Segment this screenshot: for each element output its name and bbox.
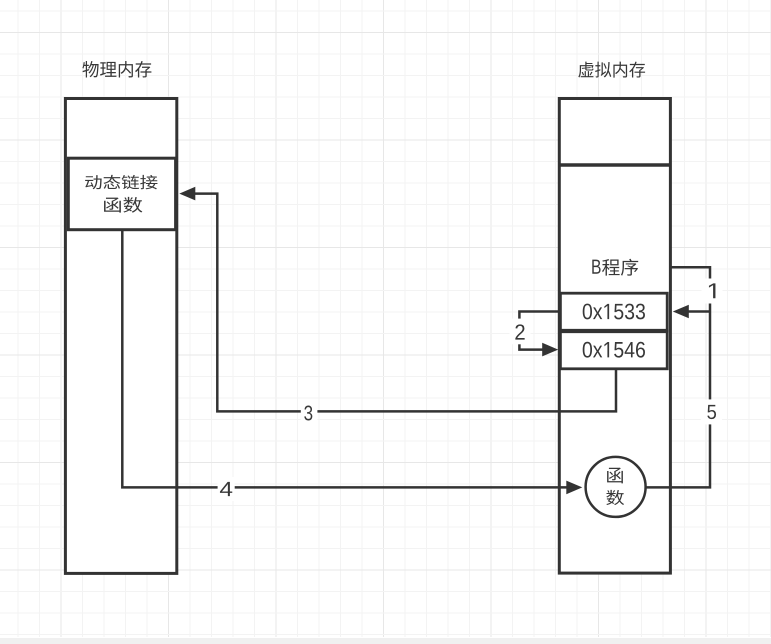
- label: B program letter B: [592, 260, 600, 274]
- label: dynamic-link line2 函数: [104, 197, 142, 213]
- wire: edge 3 from 0x1546 bottom to dynamic-link box: [192, 194, 616, 412]
- arrowhead: edge 4 into function circle: [566, 481, 582, 495]
- label: edge number 2: [515, 324, 524, 339]
- label: dynamic-link line1 动态链接: [85, 175, 157, 190]
- rectangle: cell 0x1546: [560, 331, 667, 369]
- label: edge number 3: [304, 406, 312, 421]
- label: address 0x1533: [583, 304, 645, 320]
- arrowhead: edge 1 into 0x1533: [673, 305, 689, 319]
- wire: edge 4 from dynamic-link box bottom to function circle: [122, 231, 568, 488]
- wire: edge 1 horizontal into 0x1533 right side: [685, 310, 710, 313]
- shared border between 0x1533 and 0x1546: [560, 329, 667, 333]
- label background 2: [510, 319, 531, 345]
- bottom scrollbar strip: [0, 638, 771, 644]
- wire: edge 5 from function circle right side up to junction: [646, 312, 710, 488]
- circle: function node 函数: [586, 457, 646, 517]
- label background 4: [218, 477, 235, 501]
- label: address 0x1546: [583, 342, 645, 358]
- label background 3: [301, 401, 318, 425]
- label: edge number 4: [220, 482, 232, 496]
- rectangle: physical memory column 物理内存: [65, 99, 176, 574]
- label: B program 程序: [602, 259, 638, 276]
- arrowhead: edge 3 into dynamic-link box: [179, 187, 195, 201]
- label: circle text 数: [606, 490, 624, 505]
- divider line in virtual memory column: [559, 163, 670, 167]
- wire: edge 2 from 0x1533 left side, left, down, right into 0x1546: [519, 312, 558, 350]
- label: physical memory title 物理内存: [82, 61, 151, 78]
- label: edge number 1: [709, 283, 715, 298]
- label background 1: [702, 279, 723, 304]
- rectangle: cell 0x1533: [560, 293, 667, 331]
- arrowhead: edge 2 into 0x1546: [542, 343, 558, 357]
- label: circle text 函: [607, 468, 623, 484]
- label background 5: [701, 399, 722, 424]
- rectangle: dynamic link function box 动态链接函数: [68, 158, 175, 230]
- rectangle: virtual memory column 虚拟内存: [559, 99, 670, 574]
- label: edge number 5: [707, 405, 716, 419]
- wire: edge 1 from B程序 right side, right then down: [672, 267, 711, 311]
- label: virtual memory title 虚拟内存: [578, 62, 645, 78]
